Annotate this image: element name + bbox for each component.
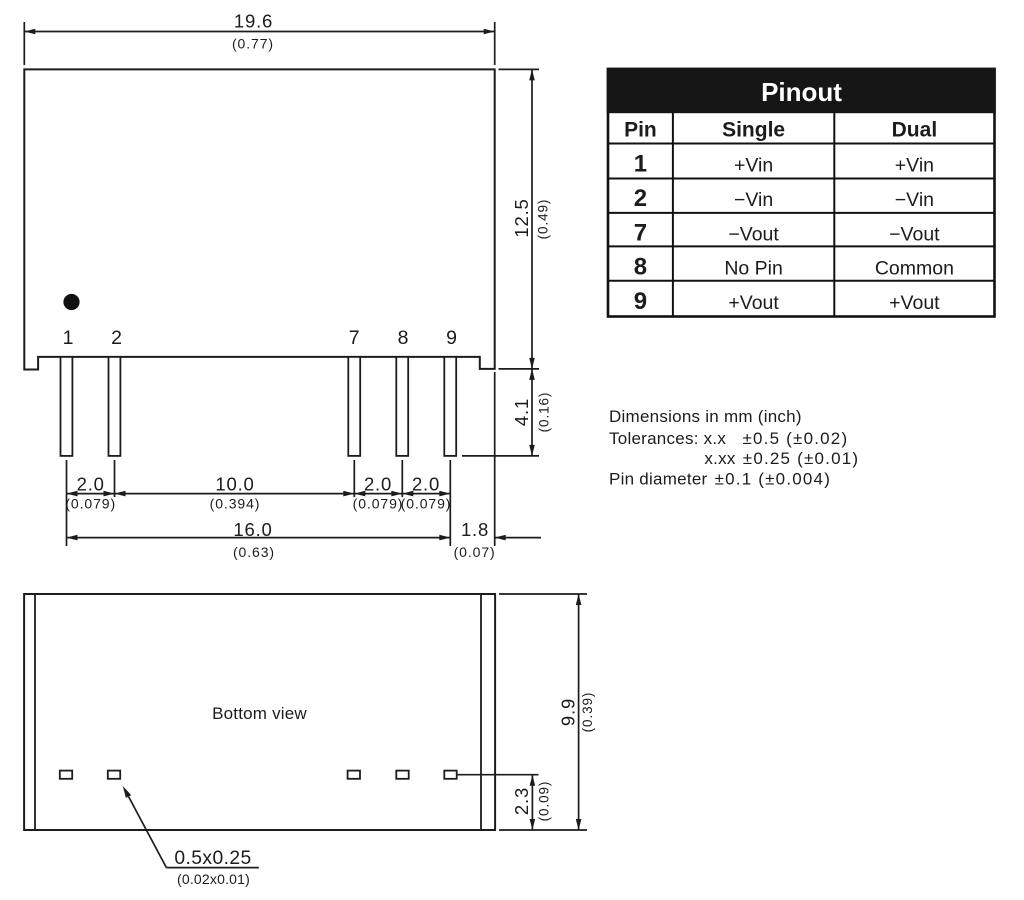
svg-text:8: 8	[398, 327, 409, 349]
svg-text:(0.079): (0.079)	[65, 496, 116, 512]
pad 7	[348, 771, 360, 779]
dimension 19.6 width extension lines	[23, 22, 25, 65]
svg-text:Dual: Dual	[892, 118, 938, 141]
pin pitch extension line pin8	[401, 460, 403, 497]
body edge extension line right	[494, 372, 496, 546]
pin pitch extension line pin2	[114, 460, 116, 497]
dimension 19.6 width dimension line	[24, 31, 494, 33]
svg-text:4.1: 4.1	[511, 398, 532, 426]
svg-text:9: 9	[446, 327, 457, 349]
svg-text:8: 8	[634, 254, 647, 281]
svg-text:+Vin: +Vin	[734, 155, 773, 177]
pad 9	[444, 771, 456, 779]
svg-text:−Vin: −Vin	[895, 189, 934, 211]
svg-text:10.0: 10.0	[215, 473, 254, 494]
svg-text:12.5: 12.5	[511, 198, 532, 237]
svg-text:Dimensions in mm (inch): Dimensions in mm (inch)	[609, 407, 802, 426]
svg-text:9: 9	[634, 288, 647, 315]
svg-text:Bottom view: Bottom view	[212, 704, 307, 723]
svg-text:Pinout: Pinout	[761, 77, 842, 107]
bottom view left inner edge line	[34, 594, 36, 830]
pin 2 lead	[109, 357, 121, 456]
dimension 2.0 pin1-pin2	[67, 493, 115, 495]
svg-text:2.0: 2.0	[364, 473, 392, 494]
svg-text:−Vin: −Vin	[734, 189, 773, 211]
svg-text:2.0: 2.0	[412, 473, 440, 494]
svg-text:−Vout: −Vout	[889, 223, 940, 245]
svg-text:Single: Single	[722, 118, 785, 141]
svg-text:(0.16): (0.16)	[537, 392, 552, 433]
svg-text:+Vout: +Vout	[728, 292, 779, 314]
table grid horizontal lines	[608, 143, 995, 145]
pin 1 lead	[61, 357, 73, 456]
notes text block	[609, 407, 859, 489]
svg-text:+Vin: +Vin	[895, 155, 934, 177]
svg-text:−Vout: −Vout	[728, 223, 779, 245]
svg-text:0.5x0.25: 0.5x0.25	[174, 848, 251, 869]
svg-text:1.8: 1.8	[461, 519, 489, 540]
svg-text:Common: Common	[875, 258, 954, 280]
svg-text:1: 1	[63, 327, 74, 349]
dimension 10.0 pin2-pin7	[115, 493, 355, 495]
svg-text:2.0: 2.0	[77, 473, 105, 494]
svg-text:(0.394): (0.394)	[210, 496, 261, 512]
dimension 2.3 dimension line	[531, 775, 533, 830]
bottom view outline	[24, 594, 495, 830]
svg-text:2: 2	[634, 185, 647, 212]
dimension 12.5 height extension line	[499, 68, 540, 70]
pad 1	[60, 771, 72, 779]
svg-text:No Pin: No Pin	[724, 258, 783, 280]
svg-text:7: 7	[349, 327, 360, 349]
dimension 12.5 dimension line	[531, 69, 533, 369]
dimension 1.8 pin9-body edge	[495, 537, 541, 539]
svg-text:2: 2	[111, 327, 122, 349]
svg-text:+Vout: +Vout	[889, 292, 940, 314]
dimension 16.0 pin1-pin9	[67, 537, 451, 539]
pin pitch extension line pin1	[66, 460, 68, 546]
pad row extension line	[457, 774, 539, 776]
svg-text:(0.09): (0.09)	[537, 781, 552, 822]
svg-text:(0.63): (0.63)	[233, 544, 275, 560]
dimension 2.0 pin8-pin9	[402, 493, 450, 495]
svg-text:(0.07): (0.07)	[454, 544, 496, 560]
svg-text:(0.49): (0.49)	[536, 199, 551, 240]
svg-text:(0.079): (0.079)	[401, 496, 452, 512]
svg-text:Pin: Pin	[624, 118, 657, 141]
pin 7 lead	[348, 357, 360, 456]
pin bottom extension line	[462, 455, 539, 457]
dimension 9.9 extension line bottom	[499, 829, 587, 831]
pin 9 lead	[444, 357, 456, 456]
svg-text:(0.02x0.01): (0.02x0.01)	[177, 871, 250, 887]
svg-text:(0.39): (0.39)	[580, 692, 595, 733]
pin 1 polarity dot	[63, 294, 79, 310]
package body outline (side view)	[24, 69, 494, 369]
pad size callout arrow	[123, 786, 131, 798]
dimension 9.9 dimension line	[578, 594, 580, 830]
svg-text:(0.77): (0.77)	[232, 36, 274, 52]
svg-text:16.0: 16.0	[233, 519, 272, 540]
dimension 9.9 extension line top	[499, 593, 587, 595]
svg-text:Pin diameter±0.1 (±0.004): Pin diameter±0.1 (±0.004)	[609, 469, 831, 488]
standoff bottom extension line	[499, 368, 540, 370]
pinout table header bar	[607, 68, 996, 114]
table grid vertical lines	[672, 112, 674, 316]
pad 2	[108, 771, 120, 779]
dimension 2.0 pin7-pin8	[354, 493, 402, 495]
svg-text:2.3: 2.3	[511, 787, 532, 815]
dimension 4.1 dimension line	[531, 369, 533, 456]
pin pitch extension line pin7	[353, 460, 355, 497]
svg-text:7: 7	[634, 219, 647, 246]
bottom view right inner edge line	[480, 594, 482, 830]
svg-text:1: 1	[634, 151, 647, 178]
svg-text:19.6: 19.6	[234, 10, 273, 31]
svg-text:(0.079): (0.079)	[353, 496, 404, 512]
pin pitch extension line pin9	[449, 460, 451, 546]
pad 8	[396, 771, 408, 779]
svg-text:x.xx±0.25 (±0.01): x.xx±0.25 (±0.01)	[704, 449, 859, 468]
svg-text:9.9: 9.9	[558, 698, 579, 726]
pinout table outer frame	[607, 68, 996, 317]
pin 8 lead	[396, 357, 408, 456]
